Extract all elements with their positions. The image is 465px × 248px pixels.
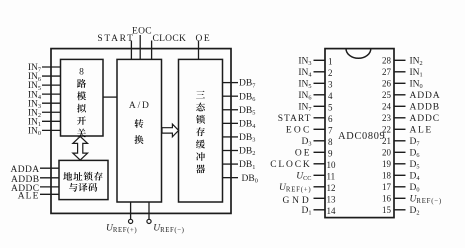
terminal circle UREF(+)	[129, 219, 133, 223]
wire DB0 output	[223, 177, 239, 179]
wire IN6 input	[42, 75, 61, 77]
pin 28 stub (right)	[394, 59, 406, 61]
wire DB6 output	[223, 95, 239, 97]
svg-text:GND: GND	[283, 196, 312, 206]
svg-text:OE: OE	[295, 149, 312, 159]
wire ALE input	[40, 193, 59, 195]
svg-text:OE: OE	[195, 34, 211, 44]
pin 2 stub (left)	[314, 71, 326, 73]
wire UREF(+) terminal lead	[130, 202, 132, 219]
pin 3 stub (left)	[314, 82, 326, 84]
pin 26 stub (right)	[394, 82, 406, 84]
svg-text:15: 15	[382, 205, 392, 215]
svg-text:18: 18	[382, 171, 392, 181]
svg-text:20: 20	[382, 148, 392, 158]
svg-text:3: 3	[328, 80, 333, 90]
wire DB4 output	[223, 122, 239, 124]
pin 18 stub (right)	[394, 174, 406, 176]
svg-text:10: 10	[327, 160, 337, 170]
block: 8-channel analog multiplexer (8路模拟开关)	[61, 59, 104, 137]
wire OE control	[198, 41, 200, 60]
pin 21 stub (right)	[394, 140, 406, 142]
pin 1 stub (left)	[314, 59, 326, 61]
wire IN4 input	[42, 93, 61, 95]
wire UREF(-) terminal lead	[148, 202, 150, 219]
svg-text:27: 27	[382, 67, 392, 77]
outer box of ADC0809 block diagram	[51, 49, 231, 214]
pin 6 stub (left)	[314, 117, 326, 119]
svg-text:6: 6	[328, 114, 333, 124]
svg-text:START: START	[278, 114, 312, 124]
bus arrow between multiplexer and address latch (double-headed)	[73, 136, 88, 160]
svg-text:23: 23	[382, 113, 392, 123]
wire IN3 input	[42, 102, 61, 104]
svg-text:CLOCK: CLOCK	[270, 160, 311, 170]
pin 22 stub (right)	[394, 128, 406, 130]
svg-text:16: 16	[382, 194, 392, 204]
svg-text:ADDA: ADDA	[410, 91, 441, 101]
svg-text:11: 11	[327, 172, 336, 182]
svg-text:19: 19	[382, 159, 392, 169]
svg-text:21: 21	[382, 136, 391, 146]
wire DB2 output	[223, 150, 239, 152]
svg-text:5: 5	[328, 103, 333, 113]
wire DB7 output	[223, 82, 239, 84]
wire IN2 input	[42, 111, 61, 113]
svg-text:4: 4	[328, 91, 333, 101]
svg-text:14: 14	[327, 206, 337, 216]
svg-text:8: 8	[328, 137, 333, 147]
pin 15 stub (right)	[394, 209, 406, 211]
pin 19 stub (right)	[394, 163, 406, 165]
wire IN7 input	[42, 66, 61, 68]
bus arrow from A/D converter to tri-state buffer	[162, 124, 179, 137]
svg-text:24: 24	[382, 102, 392, 112]
wire IN5 input	[42, 84, 61, 86]
svg-text:1: 1	[328, 57, 333, 67]
pin 9 stub (left)	[314, 151, 326, 153]
svg-text:12: 12	[327, 183, 336, 193]
pin 23 stub (right)	[394, 117, 406, 119]
wire IN0 input	[42, 129, 61, 131]
svg-text:2: 2	[328, 68, 333, 78]
svg-text:28: 28	[382, 56, 392, 66]
pin 24 stub (right)	[394, 105, 406, 107]
svg-text:22: 22	[382, 125, 391, 135]
wire ADDA input	[40, 167, 59, 169]
IC package body ADC0809 DIP-28	[325, 49, 394, 218]
svg-text:25: 25	[382, 90, 392, 100]
svg-text:ADDB: ADDB	[410, 103, 441, 113]
wire ADDB input	[40, 177, 59, 179]
svg-text:9: 9	[328, 149, 333, 159]
pin 5 stub (left)	[314, 105, 326, 107]
wire DB3 output	[223, 136, 239, 138]
pin 10 stub (left)	[314, 163, 326, 165]
wire DB1 output	[223, 163, 239, 165]
wire analog signal from multiplexer to A/D converter	[103, 96, 117, 98]
wire START control	[130, 41, 132, 60]
svg-text:START: START	[97, 34, 134, 44]
pin 20 stub (right)	[394, 151, 406, 153]
svg-text:ADC0809: ADC0809	[338, 131, 385, 142]
svg-text:ALE: ALE	[410, 126, 433, 136]
pin 13 stub (left)	[314, 197, 326, 199]
terminal circle UREF(-)	[147, 219, 151, 223]
block: address latch and decoder (地址锁存与译码)	[59, 160, 108, 199]
wire ADDC input	[40, 186, 59, 188]
svg-text:A/D: A/D	[129, 101, 151, 111]
svg-text:26: 26	[382, 79, 392, 89]
svg-text:ADDA: ADDA	[10, 165, 39, 175]
block: tri-state output latch buffer (三态锁存缓冲器)	[179, 59, 223, 202]
svg-text:CLOCK: CLOCK	[152, 34, 186, 44]
svg-text:EOC: EOC	[286, 126, 312, 136]
pin 14 stub (left)	[314, 209, 326, 211]
svg-text:8: 8	[79, 67, 84, 77]
wire DB5 output	[223, 109, 239, 111]
pin 25 stub (right)	[394, 94, 406, 96]
pin 11 stub (left)	[314, 174, 326, 176]
pin 7 stub (left)	[314, 128, 326, 130]
pin 17 stub (right)	[394, 186, 406, 188]
svg-text:ALE: ALE	[18, 191, 40, 201]
svg-text:ADDC: ADDC	[410, 114, 441, 124]
pin 12 stub (left)	[314, 186, 326, 188]
svg-text:EOC: EOC	[132, 27, 152, 37]
pin 4 stub (left)	[314, 94, 326, 96]
svg-text:13: 13	[327, 195, 337, 205]
wire IN1 input	[42, 120, 61, 122]
wire EOC control	[139, 35, 141, 59]
block: A/D converter (A/D转换)	[117, 59, 162, 202]
pin-1 index notch	[346, 49, 371, 59]
pin 16 stub (right)	[394, 197, 406, 199]
pin 27 stub (right)	[394, 71, 406, 73]
svg-text:17: 17	[382, 182, 392, 192]
svg-text:7: 7	[328, 126, 333, 136]
wire CLOCK control	[151, 41, 153, 60]
pin 8 stub (left)	[314, 140, 326, 142]
